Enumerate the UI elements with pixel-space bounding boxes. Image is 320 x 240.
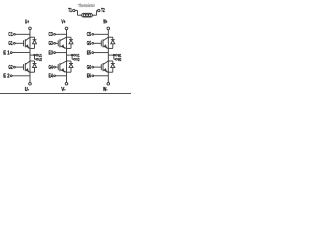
svg-text:Thermistor: Thermistor: [78, 3, 95, 9]
svg-text:G5: G5: [87, 41, 91, 47]
svg-text:C3: C3: [49, 32, 53, 38]
svg-text:W-: W-: [103, 87, 108, 93]
svg-text:U+: U+: [25, 19, 29, 25]
svg-text:E 2: E 2: [3, 74, 9, 80]
svg-text:C1: C1: [8, 32, 12, 38]
svg-text:W2: W2: [118, 57, 122, 62]
svg-text:E6: E6: [87, 74, 91, 80]
svg-text:V-: V-: [61, 87, 66, 93]
svg-text:V2: V2: [76, 57, 80, 62]
svg-text:G1: G1: [8, 41, 12, 47]
svg-text:E5: E5: [87, 50, 91, 56]
svg-text:E 1: E 1: [3, 50, 9, 56]
svg-text:G3: G3: [49, 41, 53, 47]
svg-text:E3: E3: [49, 50, 53, 56]
svg-text:T2: T2: [101, 8, 105, 14]
svg-text:U2: U2: [39, 57, 43, 62]
svg-text:C5: C5: [87, 32, 91, 38]
svg-text:G4: G4: [49, 65, 53, 71]
svg-text:G2: G2: [8, 65, 12, 71]
svg-text:V+: V+: [61, 19, 65, 25]
svg-text:T1: T1: [68, 8, 72, 14]
svg-text:U-: U-: [25, 87, 30, 93]
svg-text:E4: E4: [49, 74, 53, 80]
svg-text:W+: W+: [103, 19, 107, 25]
svg-text:G6: G6: [87, 65, 91, 71]
